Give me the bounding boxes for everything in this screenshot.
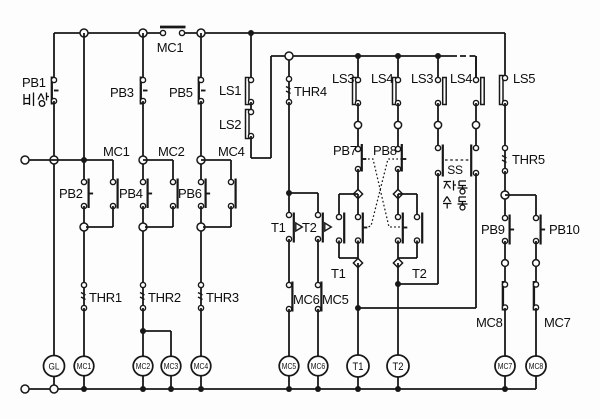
pushbutton PB2 (NO) [81,179,93,209]
label PB10 [549,222,580,237]
label LS5 [513,71,535,86]
svg-text:LS3: LS3 [411,71,433,86]
coil MC7 [495,356,515,376]
contact MC8 (interlock NC) [502,281,507,311]
node x=358 y=125 [354,121,361,128]
label MC1 (top rail contact) [157,40,184,55]
svg-text:PB4: PB4 [119,186,143,201]
junction dot bottom rail MC4 [198,386,204,392]
wire to SS right [475,129,477,146]
pushbutton PB1 (NC emergency) [51,77,58,105]
svg-text:THR5: THR5 [512,152,545,167]
label PB9 [481,222,505,237]
node diamond x=358 y=263 [353,258,362,267]
node diamond x=398 y=263 [393,258,402,267]
label T2 (branch) [412,266,427,281]
coil MC4 [191,356,211,376]
junction dot bottom rail T1 [355,386,361,392]
node x=201 y=160 [197,156,205,164]
wire second rail dashed end [460,56,476,78]
wire to MC3 coil [143,331,171,357]
wire PB4 to node [142,206,144,224]
wire left rail mid [53,101,55,356]
thermal relay THR2 [140,282,146,310]
svg-text:PB5: PB5 [169,85,193,100]
svg-text:T2: T2 [302,220,317,235]
node x=201 y=227 [197,223,205,231]
wire MC3 coil to bottom rail [170,376,172,389]
wire MC2 coil to bottom rail [142,376,144,389]
wire PB7 to node [357,169,359,190]
label LS2 [219,117,241,132]
svg-text:LS5: LS5 [513,71,535,86]
wire to interlock contact [357,194,359,215]
wire to LS3 second [437,56,439,78]
junction dot x=289 y=193 [286,190,292,196]
junction dot bottom rail MC1 [81,386,87,392]
svg-text:PB7: PB7 [333,143,357,158]
wire node to THR3 [200,231,202,283]
label THR1 [89,290,122,305]
label PB3 [110,85,134,100]
label PB4 [119,186,143,201]
wire PB5 down [200,101,202,157]
wire MC4 coil to bottom rail [200,376,202,389]
coil MC2 [133,356,153,376]
pushbutton PB10 (NO) [533,215,545,245]
svg-text:PB1: PB1 [22,75,46,90]
wire MC5 coil to bottom rail [288,376,290,389]
svg-text:THR1: THR1 [89,290,122,305]
wire to LS4 second [475,56,477,78]
wire x=201 from top rail [200,33,202,78]
wire MC7 contact to MC8 coil [535,308,537,357]
wire MC1 coil to bottom rail [83,376,85,389]
label PB8 [373,143,397,158]
limit switch LS1 [246,77,254,104]
dashed link PB7 to right interlock [364,159,402,227]
label MC7 (interlock contact) [544,315,571,330]
node diamond x=398 y=194 [393,189,402,198]
terminal circle bottom left [21,385,29,393]
label PB7 [333,143,357,158]
wire to LS3 [357,56,359,78]
svg-text:MC6: MC6 [311,362,326,371]
wire LS5 to THR5 [504,103,506,146]
node on top rail x=84 [80,29,88,37]
wire x=84 from top rail [83,33,85,160]
lamp GL [44,356,65,377]
wire GL to bottom rail [53,377,55,387]
junction dot bottom rail T2 [395,386,401,392]
junction dot second rail x=438 [435,53,441,59]
wire T2 contact down [317,239,319,283]
wire right branch rejoin [398,241,417,259]
node x=143 y=160 [139,156,147,164]
contact MC5 holding (NO) [336,213,344,244]
coil MC3 [161,356,181,376]
pushbutton PB8 (NO) [395,144,406,172]
contact MC6 (interlock NC) [286,282,292,312]
node diamond x=358 y=194 [353,189,362,198]
wire bottom rail [29,388,536,390]
wire node to THR2 [142,231,144,283]
svg-text:MC8: MC8 [476,315,503,330]
wire to LS4 [397,56,399,78]
svg-text:T1: T1 [271,220,286,235]
wire node to PB6 [200,164,202,180]
wire THR2 down [142,308,144,357]
label 자동 (auto) [444,181,468,195]
wire MC8 coil to bottom rail [535,376,537,389]
svg-text:PB8: PB8 [373,143,397,158]
wire feed rail [29,159,113,161]
label T2 (timed contact) [302,220,317,235]
svg-text:THR3: THR3 [206,290,239,305]
svg-text:T1: T1 [353,361,364,373]
svg-text:MC4: MC4 [194,362,209,371]
svg-text:SS: SS [447,163,463,177]
terminal circle left feed [21,156,29,164]
coil MC6 [308,356,328,376]
svg-text:LS4: LS4 [450,71,472,86]
label 수동 (manual) [443,197,468,211]
limit switch LS2 [246,109,254,138]
thermal relay THR3 [198,282,204,310]
svg-text:LS4: LS4 [371,71,393,86]
junction dot x=143 y=331 [140,328,146,334]
dashed link PB8 to left interlock [366,159,402,228]
wire node to MC7 contact [535,267,537,283]
label T1 (branch) [331,266,346,281]
label MC1 (holding contact) [103,144,130,159]
wire branch to PB10 [505,195,536,216]
svg-text:LS2: LS2 [219,117,241,132]
contact T2 (timed NO) [315,212,331,242]
wire to SS left [437,129,439,146]
wire left rail upper [53,33,55,78]
svg-text:MC5: MC5 [322,292,349,307]
wire LS3 second down [437,103,439,121]
svg-text:GL: GL [49,361,60,372]
limit switch LS4 (second) [473,77,484,105]
wire x=84 to PB2 [83,160,85,180]
junction dot second rail x=358 [355,53,361,59]
junction dot bottom rail MC2 [140,386,146,392]
wire feed to MC1 contact [112,160,114,180]
wire MC2 contact to node [145,206,173,227]
pushbutton PB9 (NO) [502,215,514,245]
wire feed to MC4 contact [201,160,231,180]
wire LS3 down [357,103,359,121]
contact MC1 (self holding NO) [110,179,117,209]
label THR3 [206,290,239,305]
node x=84 y=227 [80,223,88,231]
node x=505 y=195 [501,191,509,199]
coil MC5 [279,356,299,376]
coil MC8 [526,356,546,376]
contact MC4 (self holding NO) [228,179,235,209]
svg-text:PB2: PB2 [59,186,83,201]
junction dot top rail x=251 [248,30,254,36]
svg-text:MC1: MC1 [77,362,92,371]
wire MC8 contact to MC7 coil [504,308,506,357]
wire top rail to LS5 [504,33,506,76]
wire MC4 contact to node [203,206,231,227]
wire x=143 from top rail [142,33,144,78]
contact MC1 (NC on top rail) [160,27,186,36]
junction dot x=358 y=308 [355,305,361,311]
node GL bottom [50,385,58,393]
pushbutton PB7 (NO) [355,144,366,172]
contact MC6 holding (NO) [414,213,422,244]
junction dot bottom rail MC7 [502,386,508,392]
wire interlock to node [357,241,359,260]
wire MC5 contact to MC6 coil [317,309,319,357]
wire MC1 contact to node [86,206,113,227]
svg-text:MC8: MC8 [529,362,544,371]
wire right parallel branch [398,194,417,215]
svg-text:LS1: LS1 [219,83,241,98]
svg-text:THR2: THR2 [148,290,181,305]
label MC6 (interlock contact) [293,292,320,307]
label SS [447,163,463,177]
wire to interlock contact right [397,194,399,215]
label LS3 (first) [332,71,354,86]
limit switch LS5 [500,75,508,105]
label MC8 (interlock contact) [476,315,503,330]
svg-text:T2: T2 [393,361,404,373]
svg-text:PB6: PB6 [178,186,202,201]
pushbutton PB5 (NC) [198,77,205,105]
wire THR3 to MC4 coil [200,308,202,357]
wire MC6 contact to MC5 coil [288,309,290,357]
wire THR1 to MC1 coil [83,308,85,357]
svg-text:T1: T1 [331,266,346,281]
limit switch LS3 (second) [435,77,446,105]
wire left parallel branch [339,194,358,215]
coil T2 [387,355,409,377]
wire node to THR1 [83,231,85,283]
label MC2 (holding contact) [158,144,185,159]
label LS4 (first) [371,71,393,86]
pushbutton PB6 (NO) [198,179,210,209]
label 비상 (emergency) [24,93,49,107]
svg-text:THR4: THR4 [294,84,327,99]
junction dot bottom rail MC5 [286,386,292,392]
node on top rail x=201 [197,29,205,37]
contact MC2 (self holding NO) [170,179,177,209]
svg-text:MC5: MC5 [282,362,297,371]
wire node to T2 coil [397,263,399,357]
label THR5 [512,152,545,167]
wire PB3 down [142,101,144,157]
wire top rail to LS1 [250,33,252,78]
label PB1 [22,75,46,90]
wire PB9 to node [504,241,506,259]
thermal relay THR5 [502,145,508,173]
node on top rail x=143 [139,29,147,37]
contact MC7 (interlock NC) [533,281,538,311]
wire to PB8 [397,129,399,147]
wire SS right down [360,173,476,308]
label THR4 [294,84,327,99]
wire feed to MC2 contact [143,160,173,180]
wire top rail left segment [54,32,163,34]
wire top rail right segment [182,32,505,34]
junction dot x=398 y=284 [395,281,401,287]
limit switch LS3 (first) [353,77,361,105]
wire MC7 coil to bottom rail [504,376,506,389]
contact MC5 (interlock NC) [315,282,321,312]
svg-text:PB3: PB3 [110,85,134,100]
node second rail x=289 [285,52,293,60]
svg-text:MC1: MC1 [157,40,184,55]
junction dot second rail x=398 [395,53,401,59]
thermal relay THR1 [81,282,87,310]
svg-text:PB10: PB10 [549,222,580,237]
svg-text:MC3: MC3 [164,362,179,371]
node x=476 y=125 [472,121,479,128]
label PB5 [169,85,193,100]
label LS3 (second) [411,71,433,86]
coil T1 [347,355,369,377]
thermal relay THR4 [286,76,292,104]
label THR2 [148,290,181,305]
pushbutton PB4 (NO) [140,179,152,209]
wire interlock to node right [397,241,399,260]
svg-text:PB9: PB9 [481,222,505,237]
wire PB2 to node [83,206,85,224]
wire node to T1 coil [357,263,359,357]
label MC4 (holding contact) [218,144,245,159]
node x=505 y=263 [502,260,509,267]
svg-text:MC4: MC4 [218,144,245,159]
svg-text:MC7: MC7 [544,315,571,330]
junction dot bottom rail MC6 [315,386,321,392]
limit switch LS4 (first) [393,77,401,105]
label LS1 [219,83,241,98]
wire left branch rejoin [339,241,358,259]
pushbutton PB3 (NC) [140,77,147,105]
label PB6 [178,186,202,201]
svg-text:MC2: MC2 [136,362,151,371]
svg-text:T2: T2 [412,266,427,281]
selector SS auto contact [435,145,442,177]
wire LS4 down [397,103,399,121]
wire node to PB9 [504,199,506,216]
label MC5 (interlock contact) [322,292,349,307]
dashed link SS [445,159,470,161]
wire THR4 down [288,102,290,193]
wire second rail [271,55,457,57]
node x=398 y=125 [394,121,401,128]
wire node to PB4 [142,164,144,180]
svg-text:MC1: MC1 [103,144,130,159]
wire node to MC8 contact [504,267,506,283]
wire PB10 to node [535,241,537,259]
wire LS4 second down [475,103,477,121]
label LS4 (second) [450,71,472,86]
wire LS2 to second rail riser [251,56,271,158]
svg-text:MC6: MC6 [293,292,320,307]
selector SS manual contact [471,145,478,177]
wire T1 coil to bottom rail [357,377,359,389]
node at left rail y=160 [50,156,58,164]
junction dot x=84 y=160 [81,157,87,163]
wire LS1 to LS2 [250,102,252,110]
contact PB7 interlock (NC) [395,213,407,244]
svg-text:MC7: MC7 [498,362,513,371]
label T1 (timed contact) [271,220,286,235]
wire to THR4 [288,60,290,77]
node x=438 y=125 [434,121,441,128]
node x=143 y=227 [139,223,147,231]
contact T1 (timed NO) [286,212,302,242]
wire T2 coil to bottom rail [397,377,399,389]
junction dot bottom rail MC3 [168,386,174,392]
wire SS left down [400,173,438,284]
node x=536 y=263 [533,260,540,267]
label PB2 [59,186,83,201]
coil MC1 [74,356,94,376]
svg-text:LS3: LS3 [332,71,354,86]
wire THR5 to node [504,171,506,191]
wire T1 contact down [288,239,290,283]
wire to T1 contact [288,193,290,213]
wire PB6 to node [200,206,202,224]
wire MC6 coil to bottom rail [317,376,319,389]
wire PB8 to node [397,169,399,190]
wire branch to T2 contact [289,193,318,213]
contact PB8 interlock (NC) [355,213,367,244]
svg-text:MC2: MC2 [158,144,185,159]
wire to PB7 [357,129,359,147]
